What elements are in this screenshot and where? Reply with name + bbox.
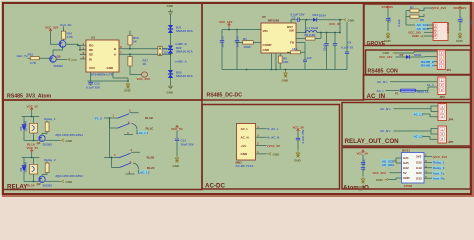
resistor R16 (pull-up) xyxy=(128,31,139,49)
diode D6 1N4148 (relay2) xyxy=(19,162,27,173)
svg-text:Q5: Q5 xyxy=(57,55,61,59)
gnd under cap xyxy=(294,151,302,162)
svg-text:GND: GND xyxy=(167,4,175,8)
transistor Q2 xyxy=(37,176,53,187)
svg-text:VCC_3V3: VCC_3V3 xyxy=(373,171,387,175)
svg-text:RELAY_OUT_CON: RELAY_OUT_CON xyxy=(345,138,400,145)
svg-text:GROVE: GROVE xyxy=(446,23,450,34)
svg-text:GND: GND xyxy=(294,158,302,162)
capacitor C6 22uF xyxy=(333,44,337,46)
IC U3 SP3485 xyxy=(86,36,119,72)
svg-text:VCC_5V: VCC_5V xyxy=(171,127,183,131)
wire down to caps xyxy=(362,155,364,162)
tvs diode D23 xyxy=(168,70,194,78)
net label AD_SDA (atom) xyxy=(382,163,396,167)
resistor FB lower xyxy=(287,47,305,54)
svg-text:4.7K: 4.7K xyxy=(30,61,37,65)
svg-text:BUS1: BUS1 xyxy=(402,149,410,153)
section box Atom_IO xyxy=(342,148,471,190)
svg-text:GROVE: GROVE xyxy=(367,41,386,47)
svg-text:RO: RO xyxy=(89,44,94,48)
svg-text:Uart_Tx: Uart_Tx xyxy=(17,54,29,58)
svg-text:GND: GND xyxy=(167,91,175,95)
svg-text:G33: G33 xyxy=(416,176,422,180)
svg-text:GND: GND xyxy=(173,164,181,168)
capacitor C2 (input) 1uF/25V xyxy=(235,30,240,70)
capacitor C3 0.1uF/25V (bootstrap) xyxy=(291,13,307,23)
output node wires xyxy=(222,20,347,70)
svg-text:0.1uF 25V: 0.1uF 25V xyxy=(301,129,305,143)
net label RS485_B xyxy=(421,60,438,64)
svg-text:VCC_12V: VCC_12V xyxy=(379,55,392,59)
feedback resistor 12K xyxy=(278,53,289,70)
wires from resistors to connector rows xyxy=(406,11,415,25)
svg-text:D24: D24 xyxy=(313,13,319,17)
section box RELAY_OUT_CON xyxy=(342,103,471,147)
svg-text:JP2: JP2 xyxy=(440,95,446,99)
svg-text:AC_N: AC_N xyxy=(241,136,249,140)
svg-text:GND: GND xyxy=(66,180,74,184)
gnd under IC xyxy=(272,53,290,83)
wire VCC to coil top rail 2 xyxy=(22,153,40,182)
wire Q4 to Q5 link xyxy=(53,48,63,56)
net label Relay_2 + gate resistor xyxy=(42,158,56,176)
svg-text:Uart_Rx: Uart_Rx xyxy=(60,23,72,27)
contact arm 2 (relay2) xyxy=(120,163,132,168)
module MB1 AC-DC xyxy=(237,124,256,161)
svg-text:RL1B: RL1B xyxy=(145,116,154,120)
svg-text:1nF: 1nF xyxy=(307,56,313,60)
resistor R17 (pull-down) xyxy=(128,54,148,74)
svg-text:ATOM: ATOM xyxy=(404,184,413,188)
net label AC_L1 xyxy=(138,131,148,135)
contact arm 1 (relay2) xyxy=(119,153,131,158)
svg-text:AC_N's: AC_N's xyxy=(380,129,391,133)
net label Uart_Rx (atom) xyxy=(433,177,445,181)
connector JP5 xyxy=(438,126,454,144)
outer frame xyxy=(3,3,471,194)
svg-text:JP4: JP4 xyxy=(448,118,454,122)
power label VCC_5V (relay2) xyxy=(27,146,39,152)
section box AC_IN xyxy=(364,75,471,100)
capacitor 1nF comp xyxy=(296,43,312,70)
svg-text:GND: GND xyxy=(376,178,384,182)
svg-text:AC_L: AC_L xyxy=(241,127,249,131)
svg-text:R7: R7 xyxy=(410,6,414,10)
svg-text:{VCC_5V: {VCC_5V xyxy=(267,144,280,148)
contact wires relay1 xyxy=(104,113,139,135)
junctions on tvs column xyxy=(170,48,172,50)
decoupling cap C12 xyxy=(171,126,194,169)
svg-text:RS485_A: RS485_A xyxy=(421,64,435,68)
power row GND xyxy=(412,34,433,38)
net label Relay_1 + gate resistor xyxy=(42,117,56,135)
svg-text:0.1uF: 0.1uF xyxy=(397,19,401,27)
transistor Q1 xyxy=(37,135,53,146)
IC bottom rail wire xyxy=(88,72,129,81)
svg-text:AD_SDA: AD_SDA xyxy=(382,163,395,167)
svg-text:RL2C: RL2C xyxy=(147,166,156,170)
svg-text:Relay_2: Relay_2 xyxy=(433,166,445,170)
gnd flag row xyxy=(383,51,438,55)
net label AC_L2 (out2) xyxy=(413,135,438,140)
svg-text:VCC_5V: VCC_5V xyxy=(357,152,369,156)
relay coil K2 xyxy=(30,164,38,174)
svg-text:G21: G21 xyxy=(403,156,409,160)
svg-text:120: 120 xyxy=(164,51,169,55)
svg-text:AC_IN: AC_IN xyxy=(367,93,386,100)
svg-text:GND: GND xyxy=(124,89,132,93)
svg-text:AC_N's: AC_N's xyxy=(377,80,388,84)
net label AC_L1 (out1) xyxy=(413,112,438,117)
SW wire to inductor xyxy=(296,20,306,33)
wire to cap C16 xyxy=(387,9,389,18)
svg-text:GND: GND xyxy=(66,139,74,143)
svg-text:SS34: SS34 xyxy=(319,14,327,18)
contact arm 2 (relay1) xyxy=(118,123,130,128)
power port VCC_3V3 (circle) xyxy=(137,72,151,81)
junction dots input xyxy=(228,29,230,31)
IC top bootstrap wire xyxy=(291,20,297,23)
wire VCC_3V3 down to Q4 source xyxy=(51,32,60,45)
svg-text:12K: 12K xyxy=(283,60,289,64)
power label VCC_5V xyxy=(382,5,394,9)
gnd flag under rail xyxy=(124,82,132,93)
svg-text:RELAY: RELAY xyxy=(7,184,28,191)
svg-text:GND: GND xyxy=(263,48,271,52)
svg-text:Relay_1: Relay_1 xyxy=(44,117,56,121)
capacitor C8 xyxy=(361,159,366,177)
svg-text:G23: G23 xyxy=(416,171,422,175)
capacitor C7 xyxy=(361,163,365,168)
svg-text:R1: R1 xyxy=(243,37,247,41)
section box AC-DC xyxy=(202,105,340,190)
svg-text:MP1584: MP1584 xyxy=(268,19,280,23)
svg-text:GND: GND xyxy=(282,79,290,83)
diode D5 1N4148 (relay1, vertical) xyxy=(19,121,27,132)
contact arm 1 (relay1) xyxy=(118,114,130,119)
capacitor C1 (input) 1uF/25V xyxy=(220,30,225,70)
svg-text:L1 10uH: L1 10uH xyxy=(307,26,319,30)
svg-text:1N4148: 1N4148 xyxy=(23,162,27,173)
power label VCC_5V xyxy=(357,150,369,156)
svg-text:Q2: Q2 xyxy=(37,182,41,186)
svg-text:{VCC_3V3: {VCC_3V3 xyxy=(432,6,447,10)
resistor R1 (EN) xyxy=(236,37,261,49)
tvs diode D21 xyxy=(168,25,194,33)
net label AC_L xyxy=(377,89,400,93)
svg-text:GND: GND xyxy=(241,152,249,156)
svg-text:D7: D7 xyxy=(400,53,404,57)
svg-text:JP5: JP5 xyxy=(448,140,454,144)
svg-text:0.1uF 25: 0.1uF 25 xyxy=(341,46,353,50)
connector JP2 xyxy=(438,77,446,99)
svg-text:U5: U5 xyxy=(262,15,266,19)
gnd under C16 xyxy=(384,32,392,43)
net label RS485_A xyxy=(421,64,438,68)
svg-text:GND: GND xyxy=(412,34,420,38)
inductor L1 10uH xyxy=(306,26,341,33)
svg-text:DE: DE xyxy=(89,53,93,57)
svg-text:RL1C: RL1C xyxy=(146,126,155,130)
svg-text:+VC: +VC xyxy=(241,144,248,148)
svg-text:AC_L1: AC_L1 xyxy=(139,131,149,135)
svg-text:GND: GND xyxy=(456,39,464,43)
svg-text:GND: GND xyxy=(273,153,281,157)
net label AD_SCL (atom) xyxy=(382,158,397,163)
svg-text:JQX-115F-005-2ZS4: JQX-115F-005-2ZS4 xyxy=(55,174,83,178)
gnd flag relay2 xyxy=(45,180,73,184)
top GND (tvs column) xyxy=(167,4,175,14)
wire VCC to coil top rail xyxy=(22,111,40,141)
svg-text:F1_2: F1_2 xyxy=(95,116,102,120)
svg-text:Q1: Q1 xyxy=(37,141,41,145)
wire VCC_12V to VIN rail xyxy=(222,27,261,30)
svg-text:U3: U3 xyxy=(91,36,95,40)
svg-text:AC-DC: AC-DC xyxy=(205,183,225,190)
svg-text:JQX-115F-005-2ZS4: JQX-115F-005-2ZS4 xyxy=(55,133,83,137)
gnd flag module xyxy=(267,152,280,156)
net label AC_N xyxy=(377,80,437,84)
gnd flag right of Q5 xyxy=(56,58,77,62)
power label VCC_5V (relay1) xyxy=(27,105,39,111)
power label VCC_12V right xyxy=(453,6,466,10)
power label VCC_5V cap branch xyxy=(293,126,305,133)
svg-text:AC_L2: AC_L2 xyxy=(414,135,424,139)
junctions output xyxy=(320,32,322,34)
svg-text:VCC_5V: VCC_5V xyxy=(27,105,39,109)
relay coil K1 xyxy=(30,123,38,133)
svg-text:1N4148: 1N4148 xyxy=(23,121,27,132)
net label Uart_Tx (atom) xyxy=(433,171,445,175)
svg-text:G25: G25 xyxy=(403,161,409,165)
svg-text:Relay_2: Relay_2 xyxy=(44,158,56,162)
resistor R7 xyxy=(406,6,432,13)
power label VCC_3V3 (atom left) xyxy=(373,171,397,175)
net label AC_L2 xyxy=(140,170,150,174)
svg-text:SI2302: SI2302 xyxy=(54,64,64,68)
svg-text:4.7K: 4.7K xyxy=(67,35,74,39)
svg-text:VCC_5V: VCC_5V xyxy=(382,5,394,9)
svg-text:VCC_12V: VCC_12V xyxy=(453,6,466,10)
connector JP1 xyxy=(437,50,451,72)
svg-text:rs485_A: rs485_A xyxy=(175,60,188,64)
svg-text:AC_N's: AC_N's xyxy=(380,107,391,111)
svg-text:VCC_9V: VCC_9V xyxy=(329,22,341,26)
net label Relay_1 (atom) xyxy=(433,161,445,165)
svg-text:SI2302: SI2302 xyxy=(43,142,53,146)
power flag VCC_9V / GND end xyxy=(329,18,355,26)
capacitor C5 22uF xyxy=(323,44,329,52)
left pin stubs xyxy=(396,158,402,178)
connector JP4 xyxy=(438,104,454,122)
svg-text:G22: G22 xyxy=(403,166,409,170)
net label AC_N (out2) xyxy=(380,129,438,135)
svg-text:0.1uF: 0.1uF xyxy=(469,19,473,27)
svg-text:C7 10uF: C7 10uF xyxy=(362,159,366,171)
svg-text:R8: R8 xyxy=(420,18,424,22)
resistor R14 xyxy=(61,27,73,41)
relay2 contacts xyxy=(104,152,140,174)
svg-text:3V3: 3V3 xyxy=(416,155,422,159)
svg-text:C4: C4 xyxy=(348,40,352,44)
connector GROVE J1 xyxy=(433,23,450,41)
capacitor C16 xyxy=(386,17,401,31)
svg-text:SW: SW xyxy=(289,29,294,33)
power label VCC_3V3 (top) xyxy=(45,26,59,32)
svg-text:COMP: COMP xyxy=(263,43,272,47)
svg-text:5V: 5V xyxy=(403,171,407,175)
svg-text:AC_L1: AC_L1 xyxy=(414,112,424,116)
svg-text:GND: GND xyxy=(403,176,411,180)
gnd flag (atom left) xyxy=(376,178,396,182)
capacitor C10 xyxy=(296,129,305,150)
long feed wire from F1_2 down to relay2 contacts xyxy=(110,118,112,158)
svg-text:10uF 25V: 10uF 25V xyxy=(181,143,194,147)
svg-text:SMAJ6.5CA: SMAJ6.5CA xyxy=(176,50,194,54)
gnd under caps xyxy=(359,177,367,189)
IC U5 MP1584 xyxy=(261,15,296,53)
wire Q4 drain to IC pin1 row xyxy=(66,44,80,45)
svg-text:RL2A: RL2A xyxy=(27,184,36,188)
svg-text:RE: RE xyxy=(89,48,93,52)
svg-text:C16: C16 xyxy=(388,17,392,23)
fuse F1 250V 1A xyxy=(395,87,437,96)
section box RELAY xyxy=(3,100,202,190)
svg-text:R15: R15 xyxy=(28,52,34,56)
svg-text:Relay_1: Relay_1 xyxy=(433,161,445,165)
right shadow xyxy=(472,2,474,197)
right pin stubs xyxy=(424,157,432,179)
diode D7 SS34 xyxy=(400,53,438,59)
svg-text:F1_1: F1_1 xyxy=(427,83,434,87)
gnd flag relay1 xyxy=(45,139,73,143)
diode D24 SS34 xyxy=(307,13,343,22)
svg-text:JP1: JP1 xyxy=(446,68,452,72)
svg-text:G19: G19 xyxy=(416,166,422,170)
module ATOM BUS1 xyxy=(402,149,425,189)
svg-text:VIN: VIN xyxy=(263,29,268,33)
resistor R4 2.2K xyxy=(296,33,321,40)
svg-text:RS485_CON: RS485_CON xyxy=(368,69,399,75)
svg-text:F1: F1 xyxy=(395,92,399,96)
junction pins1-2 xyxy=(77,44,79,46)
svg-text:100K: 100K xyxy=(244,45,252,49)
svg-text:12K: 12K xyxy=(292,47,298,51)
svg-text:VCC: VCC xyxy=(89,66,96,70)
power label VCC_12V xyxy=(379,55,400,59)
svg-text:DI: DI xyxy=(89,57,92,61)
resistor R8 xyxy=(406,14,424,22)
net label AD_SCL xyxy=(416,23,433,27)
power label VCC_12V xyxy=(219,20,232,27)
section box GROVE xyxy=(364,4,471,46)
section box RS485_CON xyxy=(366,50,471,75)
svg-text:C17: C17 xyxy=(460,17,464,23)
svg-text:SP3485EN-L/TR: SP3485EN-L/TR xyxy=(91,73,114,77)
gnd under C17 xyxy=(456,32,464,43)
svg-text:N_AC_L: N_AC_L xyxy=(267,127,279,131)
svg-text:SMAJ6.5CA: SMAJ6.5CA xyxy=(176,74,194,78)
tvs column wire xyxy=(170,15,172,85)
bottom gnd of tvs column xyxy=(167,84,175,95)
svg-text:RL2B: RL2B xyxy=(147,156,156,160)
svg-text:Atom_IO: Atom_IO xyxy=(343,185,369,192)
svg-text:AC_L2: AC_L2 xyxy=(140,170,150,174)
svg-text:Uart_Rx: Uart_Rx xyxy=(433,177,445,181)
svg-text:VCC_3V3: VCC_3V3 xyxy=(137,77,151,81)
svg-text:SI2302: SI2302 xyxy=(43,183,53,187)
svg-text:22uF: 22uF xyxy=(323,44,327,51)
net label AC_N (out1) xyxy=(380,106,438,112)
svg-text:RS485_DC-DC: RS485_DC-DC xyxy=(207,93,243,99)
IC left pin stubs xyxy=(80,45,86,59)
svg-text:N_AC_N: N_AC_N xyxy=(267,136,279,140)
capacitor C4 right 0.1uF xyxy=(341,40,353,53)
junction dots on rows xyxy=(129,48,131,50)
svg-text:{VCC_3V3: {VCC_3V3 xyxy=(433,155,448,159)
svg-text:AC-DC 7V1A: AC-DC 7V1A xyxy=(236,164,255,168)
svg-text:1uF 25V: 1uF 25V xyxy=(221,36,225,48)
svg-text:GND: GND xyxy=(71,58,77,62)
resistor R1 (term) xyxy=(158,46,169,56)
junction bottom rail xyxy=(271,69,273,71)
net label AD_SDA xyxy=(416,27,433,31)
transistor Q4 xyxy=(59,41,66,48)
svg-text:SS34: SS34 xyxy=(414,53,422,57)
transistor Q5 xyxy=(50,55,64,68)
svg-text:VCC_5V: VCC_5V xyxy=(27,146,39,150)
svg-text:C3: C3 xyxy=(292,16,296,20)
resistor R15 xyxy=(28,52,50,64)
svg-text:SMAJ6.5CA: SMAJ6.5CA xyxy=(176,29,194,33)
svg-text:VCC_3V3: VCC_3V3 xyxy=(45,26,59,30)
junction on rail xyxy=(306,19,308,21)
svg-text:GND: GND xyxy=(348,19,356,23)
section box RS485_3V3_Atom xyxy=(3,3,202,100)
net label Relay_2 (atom) xyxy=(433,166,445,170)
capacitor C13 xyxy=(86,81,100,89)
power row VCC_5V xyxy=(408,31,433,35)
svg-text:VCC_12V: VCC_12V xyxy=(219,20,232,24)
module right pin stubs xyxy=(256,129,267,154)
svg-text:RS485_3V3_Atom: RS485_3V3_Atom xyxy=(7,94,52,100)
svg-text:0.1uF 25V: 0.1uF 25V xyxy=(86,85,100,89)
section box RS485_DC-DC xyxy=(202,3,364,100)
junction xyxy=(127,80,129,82)
wire and capacitor C17 xyxy=(458,10,473,32)
IC right wires rows B/A xyxy=(119,49,171,55)
bottom shadow xyxy=(2,195,474,197)
tvs diode D22 xyxy=(168,46,194,54)
svg-text:G22: G22 xyxy=(416,161,422,165)
svg-text:Uart_Tx: Uart_Tx xyxy=(433,171,445,175)
svg-text:GND: GND xyxy=(107,66,115,70)
